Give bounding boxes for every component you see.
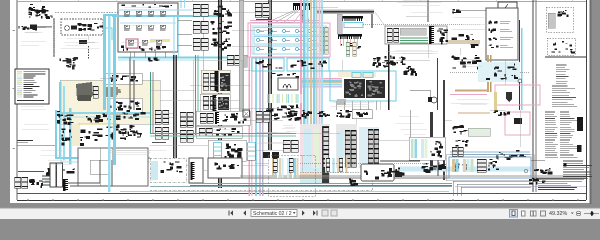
harness ladder vertical	[53, 18, 55, 57]
panel green wires	[400, 37, 428, 39]
pink box right-mid	[495, 85, 540, 105]
panel inner box 2	[107, 98, 142, 114]
wire loops bottom right	[531, 159, 545, 161]
cyan verticals inside console	[173, 17, 175, 58]
center small connectors row	[271, 73, 299, 78]
beige connector box mid B	[200, 94, 230, 111]
relay box row3 center a	[196, 111, 250, 125]
components mid-left row2	[106, 125, 142, 140]
toolbar background	[0, 208, 600, 219]
relay items right of ecu	[403, 66, 416, 76]
mid connector outer box	[193, 60, 242, 113]
gray double bus right long	[240, 175, 586, 177]
legend black block 1	[577, 117, 583, 131]
starter block	[30, 25, 37, 30]
cyan wire from pump box	[103, 28, 112, 40]
wire serial note to panel	[18, 145, 56, 147]
cab harness connector group 3	[193, 38, 200, 50]
vertical wire x437	[437, 58, 439, 110]
pink box relay row 1	[256, 29, 264, 32]
dark item pair row3	[263, 152, 270, 158]
terminal strip 1	[338, 16, 363, 21]
pump motor symbol	[65, 26, 77, 31]
small box x352	[352, 110, 372, 119]
console relay row 2	[120, 22, 176, 24]
sheet bottom ruler upper line	[17, 193, 586, 195]
boom connector block	[255, 3, 262, 17]
teal vertical pair x150	[150, 72, 154, 134]
dark vertical band x443	[443, 80, 445, 180]
pink box cyan sub-box row1	[254, 28, 324, 36]
small circle item	[518, 79, 522, 83]
small component left of relay box	[452, 9, 461, 14]
svg-text:Schematic 02 / 2: Schematic 02 / 2	[253, 211, 292, 217]
striped columns x180 a	[180, 112, 186, 127]
panel inner box 1	[104, 73, 142, 84]
gray harness band	[239, 0, 244, 112]
legend table rows	[545, 112, 578, 157]
yellow wire mid-left	[78, 123, 118, 125]
wire top right	[459, 9, 498, 11]
ECM A lower pastel striping	[300, 168, 330, 184]
wires around buzzer	[410, 90, 430, 97]
pink distribution box	[248, 23, 330, 57]
bottom-left cyan wire	[45, 180, 50, 182]
pump dashed box	[61, 19, 103, 35]
small circle item br	[524, 169, 528, 173]
item x397	[395, 172, 402, 177]
right margin marks	[590, 40, 592, 170]
cyan elbow bottom-left	[56, 110, 150, 158]
cyan horizontals mid-left	[56, 112, 150, 114]
dark blocks on cyan band 2	[453, 163, 469, 171]
ECM block B	[336, 124, 357, 168]
console to harness wires	[178, 19, 192, 21]
pink box relay row 2	[256, 38, 264, 41]
vertical pair x519	[519, 20, 523, 110]
blue wires right	[450, 151, 530, 153]
gray band x337	[337, 14, 342, 34]
cab harness connector group 1	[193, 4, 200, 16]
bottom-left components	[29, 179, 44, 188]
sheet top border	[17, 1, 586, 3]
svg-text:49.32%: 49.32%	[549, 211, 567, 217]
dark blocks on cyan band	[422, 163, 447, 173]
sheet left border	[16, 0, 18, 200]
panel vertical comb	[429, 26, 434, 44]
pastel striped connectors bottom center	[272, 158, 284, 178]
pink box shield item	[506, 92, 512, 102]
dashed vertical to engine cluster	[88, 46, 90, 60]
valve box row3 right	[409, 137, 445, 160]
dotted line right mid	[450, 71, 530, 73]
legend footnote	[17, 100, 44, 102]
dashdot box bottom a	[150, 158, 186, 182]
pink box cyan sub-box row2	[254, 37, 324, 45]
bus elbow down	[371, 14, 373, 28]
dashed line under striped connectors	[300, 172, 360, 174]
solenoid block under pump box	[79, 40, 87, 44]
footer note text line	[150, 186, 452, 188]
notes box2 items	[552, 41, 576, 53]
toolbar facing icon	[531, 211, 534, 216]
notes box1 items	[557, 10, 568, 17]
panel inner components	[110, 75, 138, 82]
pastel striped blocks br	[452, 159, 473, 172]
cyan striped connector vertical	[213, 142, 221, 159]
pink box right row3	[505, 112, 530, 135]
violet horizontal above dist box	[250, 21, 320, 23]
ruler tick marks	[28, 199, 578, 201]
cyan horizontal bus y57	[118, 57, 232, 59]
items below relay box	[349, 178, 358, 186]
connector rows right row3	[452, 125, 467, 134]
toolbar rotate icon 2	[331, 210, 337, 216]
striped connector col 2	[247, 142, 255, 160]
toolbar single-page icon selected	[510, 210, 518, 218]
faint wiring texture	[21, 1, 492, 165]
dashed border around pastel connectors	[268, 155, 315, 196]
multi-pin comb connector	[293, 3, 311, 10]
terminal strip 2	[338, 34, 362, 39]
buzzer circle	[428, 97, 437, 103]
engine cluster components below panel	[56, 111, 73, 125]
wire legend box	[15, 69, 49, 104]
colored trunk bundle pink-cyan-lavender	[249, 57, 264, 196]
teal vertical pair x195	[195, 55, 199, 135]
wires below ECU box	[335, 101, 337, 110]
bottom wide box	[208, 158, 242, 178]
notes list upper	[556, 65, 570, 83]
ecu cream strip	[338, 72, 376, 77]
teal double horizontal	[150, 133, 296, 135]
components mid-left row3	[107, 112, 145, 120]
console label marks top	[121, 4, 172, 8]
ecu cyan box	[330, 71, 396, 101]
right mid extra cluster2	[455, 140, 468, 147]
pink box relay row 3	[256, 47, 264, 50]
relay row bottom-left	[46, 168, 75, 176]
panel pin rows	[105, 88, 121, 96]
dark vertical bus x388	[388, 28, 390, 110]
note text row3	[380, 160, 420, 162]
wire x410 vertical	[409, 110, 411, 137]
x-symbol box	[243, 110, 250, 117]
cream vertical band below panel	[72, 124, 80, 146]
br items cluster	[534, 168, 553, 174]
main harness vertical bus pair	[218, 0, 222, 188]
vertical bus pair x173	[173, 55, 177, 165]
cyan region right	[478, 62, 520, 82]
text label bottom-left row	[18, 171, 44, 173]
tan horizontal right	[458, 112, 490, 114]
left label	[152, 142, 166, 144]
toolbar continuous icon	[522, 211, 526, 216]
fuse link row top-left	[36, 10, 45, 14]
toolbar rotate icon 1	[322, 210, 328, 216]
panel striped bars	[387, 28, 392, 42]
relay box top right	[498, 2, 517, 13]
more blocks br	[488, 159, 499, 171]
tan band right	[448, 40, 480, 44]
bottom center dark combs	[273, 158, 277, 172]
legend black block 2	[577, 145, 582, 152]
blue bordered box bottom right	[449, 157, 531, 178]
pink box inner cyan frame	[252, 26, 326, 54]
wire top center vertical	[301, 10, 303, 23]
disconnect switch row	[18, 25, 37, 30]
second harness vertical pair	[268, 0, 272, 150]
striped connectors row4 x325	[325, 158, 335, 173]
green pale box	[468, 128, 490, 136]
left striped columns r3a	[155, 110, 161, 124]
ECM block A pins	[323, 127, 329, 167]
console red outline component	[126, 39, 138, 48]
bottom-left panel small box	[90, 160, 108, 174]
striped columns x180 b	[180, 130, 186, 142]
top right corner connector grids	[282, 110, 301, 121]
br items cluster2	[529, 178, 545, 185]
striped blocks right row3	[452, 147, 457, 156]
dashed region boundary bottom	[150, 189, 372, 191]
dark vertical band x430	[430, 112, 433, 167]
ECM block C	[359, 127, 379, 168]
wire from relay box down	[504, 13, 506, 60]
components mid-left row4	[119, 129, 141, 140]
pastel connector row center	[267, 94, 274, 103]
tall connector box row3	[208, 140, 246, 161]
nested route lines bottom right	[453, 181, 531, 196]
dotted note line row3	[300, 163, 430, 165]
striped blocks center row3	[256, 111, 262, 122]
note paragraph bottom right	[563, 161, 592, 179]
notes title line	[545, 56, 586, 58]
beige box B dark grid	[218, 97, 229, 110]
tall right box	[486, 8, 518, 60]
sheet divider between schematic and notes column	[532, 0, 534, 192]
cyan region items	[486, 63, 518, 80]
page right shadow	[590, 0, 592, 204]
cyan trunk left pair	[103, 14, 116, 192]
notes dashed box 2	[547, 38, 575, 55]
bottom box a items	[161, 161, 183, 173]
wire to harness	[37, 26, 52, 28]
pink box cyan sub-box row3	[254, 46, 324, 54]
ECM block A pastel	[300, 124, 330, 168]
horizontal dotted line upper right	[363, 23, 480, 25]
yellow vertical band	[494, 92, 497, 112]
left connector cluster rt	[452, 55, 482, 70]
ecu dark grid 2	[366, 80, 385, 98]
cyan fill strip	[151, 161, 158, 180]
tall box pair bottom-left	[50, 163, 56, 187]
pink wire right	[450, 94, 487, 96]
center-right connector grids top	[372, 56, 396, 68]
toolbar zoom dropdown arrow	[571, 213, 574, 215]
cyan trunk top connector	[103, 14, 118, 16]
cab console box	[118, 3, 178, 52]
bottom-left outer panel box	[78, 148, 148, 186]
components mid-left row	[86, 113, 107, 122]
outer gray box around blue box	[446, 155, 534, 181]
wire from battery down	[50, 16, 52, 18]
pink box inner edge line	[250, 24, 252, 57]
cab harness connector group 2	[193, 21, 200, 33]
tan trunk vertical	[487, 55, 492, 92]
ecu gray block	[337, 99, 346, 105]
striped columns in pink box right	[320, 27, 324, 54]
nested L routes	[120, 190, 449, 192]
center cyan box A	[252, 58, 284, 71]
bottom-left panel inner wires	[99, 148, 101, 186]
panel right items	[437, 29, 449, 45]
red drop wires	[339, 39, 341, 46]
console bottom components	[121, 46, 166, 51]
strip components	[341, 43, 361, 51]
panel feed verticals to beige boxes	[129, 58, 131, 111]
console left cluster	[148, 57, 159, 61]
panel lower components	[110, 101, 141, 113]
machine panel cream background	[60, 80, 160, 124]
left margin marks	[13, 30, 16, 149]
box B vertical comb	[213, 95, 217, 112]
connector row above ECM	[301, 110, 312, 119]
bus lines into tall box	[42, 175, 50, 177]
panel gray blocks	[400, 28, 426, 35]
battery pair bottom-left	[15, 177, 21, 188]
relay box row3 center b	[196, 126, 242, 138]
routing wire web	[46, 7, 520, 176]
cyan vertical bars left of panel	[59, 82, 72, 164]
tan elbow left	[455, 90, 489, 92]
footer note text line2	[455, 186, 586, 188]
toolbar zoom-out button	[576, 211, 581, 216]
engine cluster components below panel 2	[60, 128, 102, 146]
toolbar next-page button	[302, 211, 305, 216]
dashed line battery to panel	[55, 11, 118, 13]
notes bottom paragraph 2	[538, 179, 584, 190]
right connector pair row	[451, 34, 478, 48]
toolbar page combo box	[251, 210, 297, 217]
sheet right border	[586, 0, 588, 200]
mini stripe cols below strip	[346, 42, 350, 56]
toolbar zoom slider thumb	[590, 211, 594, 217]
connector comb bottom-left	[63, 179, 68, 191]
right striped cols row3	[283, 140, 290, 152]
multicolor trunk right of pink box	[300, 0, 323, 128]
beige box A dark grid	[220, 73, 230, 91]
cyan stubs above console	[180, 0, 182, 8]
toolbar last-page button	[313, 211, 318, 216]
serial number note	[18, 141, 34, 143]
sheet bottom ruler lower line	[17, 199, 586, 201]
gray double bus 2	[190, 183, 452, 185]
notes list lower	[552, 86, 577, 107]
ecu dark grid 1	[344, 79, 365, 98]
pump relay components	[78, 23, 105, 31]
pink box item	[514, 118, 522, 124]
right row3 items	[496, 150, 526, 160]
notes dashed box 1	[546, 7, 573, 32]
cyan band bottom right	[400, 167, 531, 172]
pink horizontal above dist box	[250, 20, 320, 22]
comb fan wires	[268, 10, 295, 22]
bottom narrow box	[189, 158, 203, 183]
cyan box under strip	[344, 23, 363, 28]
boom connector label	[256, 19, 272, 21]
toolbar first-page button	[229, 211, 234, 216]
console cyan bus top	[112, 15, 219, 17]
bottom-left wires to panel	[68, 160, 100, 183]
toolbar top border	[0, 207, 600, 209]
center cyan box B	[287, 58, 329, 71]
dark striped trio x227	[227, 55, 234, 65]
notes box1 gray bar	[548, 13, 555, 28]
machine connector column	[93, 86, 98, 98]
console row3 yellow highlight	[150, 39, 170, 42]
console relay row 3	[128, 40, 134, 45]
machine dark silhouette	[76, 82, 93, 101]
toolbar prev-page button	[243, 211, 246, 216]
left striped columns r3b	[155, 127, 161, 139]
note paragraph black bullet	[564, 164, 567, 167]
toolbar book icon	[541, 211, 546, 216]
tall box items	[489, 21, 498, 24]
gray panel box right	[385, 26, 447, 44]
motor box center	[278, 78, 298, 90]
beige connector box mid A	[201, 70, 230, 93]
items right of relay box	[381, 167, 404, 175]
box A vertical comb	[215, 71, 219, 91]
dark blocks under pastel row	[266, 105, 298, 113]
wire bottom center vertical	[322, 130, 324, 158]
battery cluster top-left	[28, 4, 50, 19]
console bottom feed wires	[129, 52, 131, 58]
engine ground cluster	[59, 57, 78, 69]
right mid extra cluster	[493, 110, 510, 116]
gray bus with dark core	[316, 10, 374, 15]
cyan drop from bus	[203, 17, 205, 110]
dark comb br	[477, 159, 486, 172]
top margin tick marks	[40, 0, 572, 2]
multicolor fan band	[300, 78, 342, 87]
wire from top	[427, 0, 429, 22]
console relay row 1	[124, 11, 130, 16]
ecu small cyan boxes	[352, 73, 361, 78]
relay box bottom mid	[361, 164, 394, 181]
toolbar zoom slider track	[584, 213, 599, 215]
